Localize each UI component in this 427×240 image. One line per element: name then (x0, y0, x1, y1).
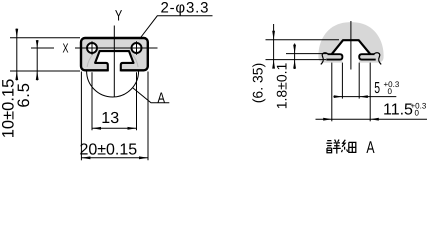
arrow up to 1.8 bottom (293, 60, 296, 69)
cavity outline (95, 51, 133, 71)
arrow into 5 left (334, 95, 343, 98)
svg-text:20±0.15: 20±0.15 (79, 141, 137, 158)
svg-text:A: A (158, 91, 166, 107)
svg-text:5: 5 (374, 80, 380, 97)
svg-text:0: 0 (388, 87, 393, 96)
arrow up to tab bottom line (272, 60, 275, 69)
arrow into 11.5 right (370, 118, 379, 121)
caption kanji 細 (strokes) (342, 140, 356, 153)
extension line 5 right (358, 63, 360, 99)
Y centerline (113, 26, 115, 98)
extension line from bump top (left) (266, 39, 340, 41)
arrow down to 1.8 top (293, 45, 296, 54)
arrow up to bottom edge (15, 71, 18, 80)
arrow into 5 right (359, 95, 368, 98)
svg-text:6.5: 6.5 (15, 82, 33, 107)
detail circle faint arc through body (left) (87, 55, 93, 67)
arrow down to bump top line (272, 31, 275, 40)
dimension line 6.5 (36, 40, 38, 81)
detail bump profile (332, 40, 371, 54)
extension line from slope corner (1.8 top) (286, 53, 327, 55)
extension line from left bottom corner down (80, 72, 82, 161)
extension line top (from profile top edge) (10, 37, 80, 39)
detail circle A (87, 45, 139, 97)
X axis centerline (left segment) (31, 47, 54, 49)
svg-text:0: 0 (415, 108, 420, 117)
dimension line 1.8±0.1 (294, 44, 296, 70)
hole right (φ3.3) (132, 43, 142, 53)
right break squiggle (374, 53, 382, 65)
dimension line 20±0.15 (81, 157, 148, 159)
detail circle faint arc through body (right) (133, 55, 139, 67)
hole left (φ3.3) (87, 43, 97, 53)
extension line 11.5 right (369, 63, 371, 122)
arrow up to bottom edge (36, 71, 39, 80)
svg-text:11.5: 11.5 (383, 102, 413, 119)
extension line from tab bottom (266, 59, 327, 61)
arrow into 11.5 left (323, 118, 332, 121)
hole left center tick (91, 41, 93, 54)
main profile body (outer rounded rectangle, gray fill) (81, 38, 148, 70)
dimension line (6.35) (273, 24, 275, 67)
dimension line 10±0.15 (16, 29, 18, 81)
arrow left (20) (81, 156, 90, 159)
arrow down to top edge (15, 29, 18, 38)
svg-text:X: X (63, 41, 69, 56)
detail view: gray dome background (318, 22, 383, 62)
dimension line 5 (333, 96, 396, 98)
caption kanji 詳 (strokes) (326, 140, 340, 154)
arrow right (20) (139, 156, 148, 159)
dimension line 11.5 (316, 118, 427, 120)
extension line from right hole down (136, 72, 138, 130)
extension line 11.5 left (from slope corner) (331, 63, 333, 122)
svg-text:(6. 35): (6. 35) (249, 63, 265, 103)
extension line from right bottom corner down (147, 72, 149, 161)
svg-text:A: A (366, 138, 375, 157)
left break squiggle (321, 53, 329, 65)
dimension line 13 (92, 127, 137, 129)
leader 2-phi3.3 (140, 16, 213, 39)
X axis centerline (through profile) (75, 47, 158, 49)
detail right tab (359, 54, 376, 59)
hole right center tick (136, 41, 138, 54)
extension line bottom (from profile bottom edge) (10, 70, 80, 72)
arrow left (13) (92, 127, 101, 130)
leader to label A (133, 88, 170, 103)
detail left tab (326, 54, 342, 59)
svg-text:1.8±0.1: 1.8±0.1 (274, 62, 290, 109)
svg-text:Y: Y (115, 7, 122, 24)
arrow down to X axis (36, 40, 39, 48)
detail void (white slot region under bump) (332, 40, 370, 63)
cavity fill (white slot void) (95, 51, 133, 72)
extension line from left hole down (91, 72, 93, 130)
detail centerline (350, 21, 352, 70)
svg-text:13: 13 (101, 110, 119, 127)
arrow right (13) (128, 127, 137, 130)
extension line 5 left (from tab inner cap) (341, 63, 343, 99)
svg-text:2-φ3.3: 2-φ3.3 (161, 0, 210, 16)
